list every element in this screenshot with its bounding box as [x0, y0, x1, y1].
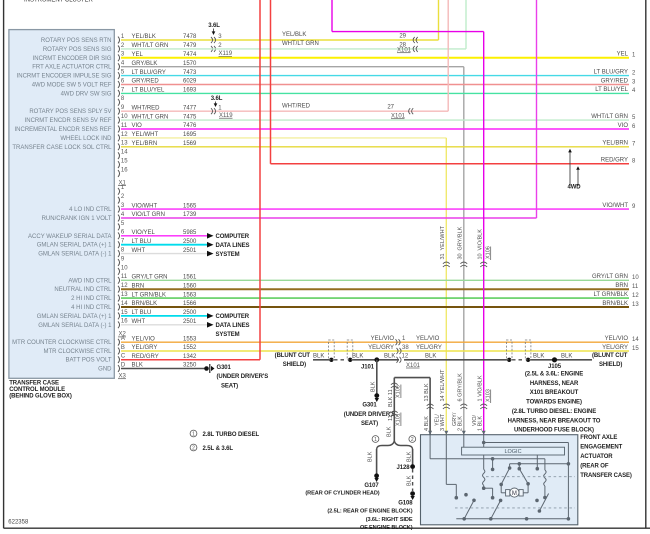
- svg-text:BLK: BLK: [132, 363, 143, 369]
- svg-text:31: 31: [440, 253, 446, 259]
- connector X101 pin 12 on shield row: [384, 353, 421, 368]
- svg-text:X101 BREAKOUT: X101 BREAKOUT: [530, 390, 579, 396]
- svg-text:YEL/GRY: YEL/GRY: [132, 345, 158, 351]
- svg-text:J128: J128: [397, 465, 411, 471]
- svg-text:WHT: WHT: [132, 248, 146, 254]
- wire YEL/BLK 7478 (X1-1 rotary pos sens rtn): [121, 0, 439, 43]
- svg-text:12: 12: [632, 293, 639, 299]
- splice J105: [548, 357, 562, 370]
- svg-text:YEL/VIO: YEL/VIO: [371, 336, 395, 342]
- svg-text:15: 15: [121, 310, 128, 316]
- wire GRY/RED 6029 (X1-6) to right edge pin 3: [121, 78, 636, 85]
- svg-text:14 YEL/WHT: 14 YEL/WHT: [440, 369, 446, 402]
- svg-text:1569: 1569: [183, 141, 197, 147]
- svg-text:14: 14: [121, 150, 128, 156]
- svg-text:VIO/YEL: VIO/YEL: [132, 230, 156, 236]
- connector X101 label (row 9): [391, 114, 406, 120]
- svg-text:BLK: BLK: [371, 381, 377, 392]
- actuator pigtail labels (4 BLK, 3 YEL/WHT, 2 GRY/BLK, 1 VIO/BLK): [424, 412, 484, 431]
- svg-text:15: 15: [632, 346, 639, 352]
- svg-text:4WD MODE SW 5 VOLT REF: 4WD MODE SW 5 VOLT REF: [32, 83, 112, 89]
- svg-text:G301: G301: [217, 365, 232, 371]
- svg-text:YEL: YEL: [132, 52, 144, 58]
- svg-text:LT GRN/BLK: LT GRN/BLK: [132, 292, 166, 298]
- svg-text:1: 1: [374, 437, 377, 443]
- svg-text:LT BLU/YEL: LT BLU/YEL: [595, 87, 628, 93]
- front axle engagement actuator box: [421, 435, 578, 525]
- svg-text:DATA LINES: DATA LINES: [216, 323, 250, 329]
- cropped page title text: [24, 0, 94, 3]
- module: transfer case control module box: [9, 30, 114, 379]
- actuator entry arrows: [428, 431, 486, 435]
- svg-text:YEL/BLK: YEL/BLK: [132, 34, 156, 40]
- svg-text:VIO/LT GRN: VIO/LT GRN: [132, 212, 165, 218]
- blunt cut shield label left: [275, 353, 311, 368]
- svg-text:FRT AXLE ACTUATOR CTRL: FRT AXLE ACTUATOR CTRL: [32, 65, 112, 71]
- svg-text:FRONT AXLE: FRONT AXLE: [580, 435, 617, 441]
- svg-text:M: M: [512, 491, 517, 497]
- svg-text:TOWARDS ENGINE): TOWARDS ENGINE): [526, 400, 582, 406]
- engine harness location note: [508, 372, 601, 434]
- svg-text:LOGIC: LOGIC: [504, 449, 521, 455]
- page border frame left: [3, 0, 5, 528]
- svg-text:MTR CLOCKWISE CTRL: MTR CLOCKWISE CTRL: [43, 349, 112, 355]
- svg-text:INCREMENTAL ENCDR SENS REF: INCREMENTAL ENCDR SENS REF: [14, 127, 111, 133]
- module pin X1-13: [12, 141, 128, 151]
- wire GRY/LT GRN 1561 (X2-11) to right edge pin 10: [121, 274, 639, 281]
- svg-text:(BLUNT CUT: (BLUNT CUT: [592, 353, 628, 359]
- module pin X2-9: [118, 256, 125, 266]
- svg-text:1: 1: [192, 432, 195, 438]
- svg-text:1342: 1342: [183, 354, 197, 360]
- svg-text:YEL/GRY: YEL/GRY: [602, 345, 628, 351]
- svg-text:SHIELD): SHIELD): [283, 362, 306, 368]
- svg-text:J101: J101: [361, 365, 375, 371]
- wire LT BLU 2500 (X2-7 gmlan+): [121, 239, 214, 248]
- svg-text:13 BLK: 13 BLK: [424, 383, 430, 401]
- module pin X1-10: [25, 114, 129, 124]
- diagram number 622358: [8, 520, 29, 526]
- module pin X1-14: [118, 150, 128, 160]
- module pin X1-6: [32, 78, 125, 88]
- svg-text:1553: 1553: [183, 336, 197, 342]
- connector X101 label (rows 1-2): [397, 48, 412, 54]
- svg-text:WHT/RED: WHT/RED: [282, 103, 311, 109]
- svg-text:5985: 5985: [183, 230, 197, 236]
- svg-text:YEL/BRN: YEL/BRN: [132, 141, 158, 147]
- svg-text:GRY/RED: GRY/RED: [601, 78, 629, 84]
- svg-text:4 HI IND CTRL: 4 HI IND CTRL: [71, 305, 112, 311]
- svg-text:ROTARY POS SENS RTN: ROTARY POS SENS RTN: [41, 38, 112, 44]
- svg-text:COMPUTER: COMPUTER: [216, 314, 250, 320]
- svg-text:BLK: BLK: [384, 353, 395, 359]
- wire WHT 2501 (X2-16 gmlan-): [121, 319, 214, 328]
- wire LT BLU/YEL 1693 (X1-7) to right edge pin 4: [121, 87, 636, 94]
- svg-text:VIO/BLK: VIO/BLK: [478, 229, 484, 251]
- svg-text:NEUTRAL IND CTRL: NEUTRAL IND CTRL: [54, 287, 112, 293]
- wire YEL/BRN 1569 (X1-13) to right edge pin 7: [121, 141, 636, 148]
- svg-text:GRY/BLK: GRY/BLK: [132, 61, 158, 67]
- svg-text:12: 12: [121, 132, 128, 138]
- wire BLK shield row right section: [404, 353, 592, 362]
- svg-text:1693: 1693: [183, 88, 197, 94]
- wire VIO/LT GRN 1739 (X2-4 run/crank ign) up at x=536.5: [121, 0, 537, 218]
- svg-text:2500: 2500: [183, 310, 197, 316]
- module pin X2-1: [118, 185, 125, 195]
- svg-text:ENGAGEMENT: ENGAGEMENT: [580, 444, 622, 450]
- svg-text:LT BLU/GRY: LT BLU/GRY: [594, 69, 628, 75]
- svg-text:2500: 2500: [183, 239, 197, 245]
- 4wd reference arrows: [567, 149, 581, 191]
- svg-text:RED/GRY: RED/GRY: [132, 354, 159, 360]
- svg-text:COMPUTER: COMPUTER: [216, 234, 250, 240]
- module pin X2-11: [68, 274, 127, 284]
- module pin X1-5: [17, 70, 125, 80]
- svg-text:RUN/CRANK IGN 1 VOLT: RUN/CRANK IGN 1 VOLT: [42, 216, 112, 222]
- svg-text:(2.5L: REAR OF ENGINE BLOCK): (2.5L: REAR OF ENGINE BLOCK): [327, 509, 412, 515]
- svg-text:(UNDER DRIVER'S: (UNDER DRIVER'S: [217, 374, 269, 380]
- wire YEL/VIO 1553 (X3-A mtr counter clockwise) to right edge pin 14: [121, 336, 639, 345]
- module pin X2-6: [28, 230, 125, 240]
- svg-text:2: 2: [411, 437, 414, 443]
- module connector label X2: [118, 332, 127, 338]
- svg-text:BLK: BLK: [313, 353, 324, 359]
- wire YEL 7474 (X1-3) to right edge pin 1: [121, 52, 636, 59]
- svg-text:WHT/RED: WHT/RED: [132, 105, 161, 111]
- svg-text:LT GRN/BLK: LT GRN/BLK: [594, 292, 628, 298]
- svg-text:GRY/RED: GRY/RED: [132, 79, 160, 85]
- svg-text:VIO: VIO: [132, 123, 143, 129]
- svg-text:1 BLK: 1 BLK: [478, 416, 484, 431]
- wire LT BLU/GRY 7473 (X1-5) to right edge pin 2: [121, 69, 636, 76]
- wire WHT/LT GRN 7479 (X1-2): [121, 0, 466, 52]
- svg-text:27: 27: [387, 105, 394, 111]
- svg-text:GMLAN SERIAL DATA (-) 1: GMLAN SERIAL DATA (-) 1: [38, 323, 112, 329]
- svg-text:D: D: [121, 362, 126, 368]
- svg-text:3 WHT: 3 WHT: [440, 413, 446, 431]
- svg-text:1560: 1560: [183, 283, 197, 289]
- module pin X2-5: [118, 221, 125, 231]
- module pin X2-4: [42, 212, 125, 222]
- svg-text:1570: 1570: [183, 61, 197, 67]
- wire BLK shield row with inline connectors: [313, 353, 399, 362]
- svg-text:YEL/VIO: YEL/VIO: [605, 336, 629, 342]
- ground G107 (rear of cylinder head): [305, 483, 379, 497]
- svg-text:GRY/LT GRN: GRY/LT GRN: [132, 275, 168, 281]
- svg-text:BLK: BLK: [387, 426, 393, 437]
- svg-text:WHT/LT GRN: WHT/LT GRN: [132, 114, 169, 120]
- svg-text:WHT/LT GRN: WHT/LT GRN: [132, 43, 169, 49]
- module pin X3-B: [43, 345, 124, 355]
- svg-text:GND: GND: [98, 367, 112, 373]
- svg-text:YEL/GRY: YEL/GRY: [416, 345, 442, 351]
- svg-text:YEL/GRY: YEL/GRY: [368, 345, 394, 351]
- module pin X1-16: [118, 167, 128, 177]
- wire YEL/WHT 1695 (X1-12 wheel lock ind): [121, 132, 446, 435]
- ground G301 (under driver seat): [344, 402, 396, 427]
- ground wire fork (1)=2.8L diesel (2)=2.5/3.6L: [372, 436, 416, 449]
- module pin X1-9: [29, 105, 125, 115]
- svg-text:YEL/VIO: YEL/VIO: [416, 336, 440, 342]
- svg-text:WHT: WHT: [132, 319, 146, 325]
- svg-text:WHT/LT GRN: WHT/LT GRN: [282, 41, 319, 47]
- wire BLK branch 1 to G107: [368, 449, 380, 482]
- module pin X2-10: [118, 265, 128, 275]
- wire RED/GRY 1342 (X3-C batt pos volt) up at x=260: [121, 0, 260, 360]
- svg-text:ROTARY POS SENS SIG: ROTARY POS SENS SIG: [43, 47, 112, 53]
- module pin X1-11: [14, 123, 127, 133]
- module pin X2-8: [38, 248, 125, 258]
- svg-text:(2.5L & 3.6L: ENGINE: (2.5L & 3.6L: ENGINE: [525, 372, 583, 378]
- svg-text:4 BLK: 4 BLK: [424, 416, 430, 431]
- svg-text:3.6L: 3.6L: [208, 23, 220, 29]
- svg-text:RED/GRY: RED/GRY: [601, 158, 628, 164]
- wire BLK 3250 (X3-D gnd) to G301: [121, 363, 207, 369]
- svg-text:SHIELD): SHIELD): [599, 362, 622, 368]
- module pin X2-7: [37, 239, 125, 249]
- svg-text:(3.6L: RIGHT SIDE: (3.6L: RIGHT SIDE: [366, 517, 413, 523]
- module pin X2-2: [118, 194, 125, 204]
- svg-text:VIO: VIO: [618, 123, 629, 129]
- svg-text:10: 10: [121, 114, 128, 120]
- page border frame right: [645, 0, 647, 528]
- svg-text:YEL/VIO: YEL/VIO: [132, 336, 156, 342]
- splice J101: [361, 357, 379, 370]
- svg-text:16: 16: [121, 319, 128, 325]
- svg-text:BRN: BRN: [132, 283, 145, 289]
- svg-text:2501: 2501: [183, 248, 197, 254]
- svg-text:11: 11: [632, 284, 639, 290]
- svg-text:2: 2: [192, 446, 195, 452]
- svg-text:UNDERHOOD FUSE BLOCK): UNDERHOOD FUSE BLOCK): [514, 428, 594, 434]
- svg-text:4WD DRV SW SIG: 4WD DRV SW SIG: [61, 91, 112, 97]
- svg-text:7476: 7476: [183, 123, 197, 129]
- svg-text:38: 38: [402, 345, 409, 351]
- svg-text:BLK: BLK: [561, 353, 572, 359]
- svg-text:1695: 1695: [183, 132, 197, 138]
- module pin X2-15: [37, 310, 128, 320]
- svg-text:BLK 11: BLK 11: [388, 389, 394, 407]
- svg-text:SYSTEM: SYSTEM: [216, 332, 240, 338]
- svg-text:HARNESS, NEAR BREAKOUT TO: HARNESS, NEAR BREAKOUT TO: [508, 418, 601, 424]
- module name label: [9, 381, 72, 400]
- module pin X2-12: [54, 283, 128, 293]
- wire VIO/WHT 1565 (X2-3 4 lo ind ctrl) to right edge pin 9: [121, 203, 636, 210]
- wire LT BLU 2500 (X2-15 gmlan+): [121, 310, 214, 319]
- wire BRN/BLK 1566 (X2-14) to right edge pin 13: [121, 301, 639, 308]
- svg-text:10: 10: [478, 253, 484, 259]
- actuator internal wiring: [430, 435, 570, 520]
- svg-text:G108: G108: [398, 500, 413, 506]
- svg-text:BATT POS VOLT: BATT POS VOLT: [65, 358, 111, 364]
- module pin X2-14: [71, 301, 128, 311]
- connector X103 (13 BLK, 14 YEL/WHT, 6 GRY/BLK, 1 VIO/BLK): [424, 369, 492, 409]
- svg-text:BLK: BLK: [352, 353, 363, 359]
- svg-text:622358: 622358: [8, 520, 29, 526]
- svg-text:10: 10: [632, 275, 639, 281]
- svg-text:VIO/WHT: VIO/WHT: [132, 203, 158, 209]
- connector X119 (3.6L) rows 1-2: [208, 23, 233, 57]
- svg-text:13: 13: [632, 302, 639, 308]
- svg-text:(2.8L TURBO DIESEL: ENGINE: (2.8L TURBO DIESEL: ENGINE: [512, 409, 596, 415]
- svg-text:GRY/BLK: GRY/BLK: [458, 226, 464, 250]
- wire BLK branch 2 via J128 to G108: [397, 449, 415, 500]
- module pin X2-3: [69, 203, 125, 213]
- svg-text:BRN/BLK: BRN/BLK: [602, 301, 628, 307]
- svg-text:HARNESS, NEAR: HARNESS, NEAR: [530, 381, 579, 387]
- svg-text:LT BLU: LT BLU: [132, 239, 152, 245]
- svg-text:7479: 7479: [183, 43, 197, 49]
- wire BLK actuator ground harness: [394, 378, 430, 441]
- svg-text:(REAR OF: (REAR OF: [580, 463, 609, 469]
- svg-text:(REAR OF CYLINDER HEAD): (REAR OF CYLINDER HEAD): [305, 490, 379, 496]
- svg-text:TRANSFER CASE LOCK SOL CTRL: TRANSFER CASE LOCK SOL CTRL: [12, 145, 112, 151]
- svg-text:ACTUATOR: ACTUATOR: [580, 454, 613, 460]
- svg-text:4WD: 4WD: [567, 184, 581, 190]
- actuator switch contacts and arms: [456, 493, 570, 521]
- motor M: [506, 488, 524, 497]
- blunt cut shield label right: [592, 353, 628, 368]
- connector X106 on ground wire (pin 11): [388, 383, 402, 407]
- svg-text:14: 14: [632, 337, 639, 343]
- svg-text:3.6L: 3.6L: [211, 96, 223, 102]
- svg-text:1552: 1552: [183, 345, 197, 351]
- svg-text:1566: 1566: [183, 301, 197, 307]
- svg-text:1 VIO/BLK: 1 VIO/BLK: [478, 375, 484, 401]
- svg-text:OF ENGINE BLOCK): OF ENGINE BLOCK): [360, 525, 413, 531]
- ground G301 (module): [204, 364, 268, 389]
- wire VIO/YEL 5985 (X2-6 accy wakeup serial data): [121, 230, 214, 239]
- module pin X1-8: [118, 96, 125, 106]
- svg-text:2.5L & 3.6L: 2.5L & 3.6L: [203, 446, 234, 452]
- svg-text:MTR COUNTER CLOCKWISE CTRL: MTR COUNTER CLOCKWISE CTRL: [12, 340, 112, 346]
- svg-text:AWD IND CTRL: AWD IND CTRL: [68, 278, 112, 284]
- connector X119 (3.6L) row 9: [211, 96, 234, 119]
- svg-text:ROTARY POS SENS SPLY 5V: ROTARY POS SENS SPLY 5V: [29, 109, 111, 115]
- svg-text:YEL/WHT: YEL/WHT: [132, 132, 159, 138]
- wire GRY/BLK 1570 (X1-4 frt axle actuator ctrl): [121, 61, 464, 435]
- svg-text:ACCY WAKEUP SERIAL DATA: ACCY WAKEUP SERIAL DATA: [28, 234, 111, 240]
- svg-text:2.8L TURBO DIESEL: 2.8L TURBO DIESEL: [203, 432, 260, 438]
- wire BRN 1560 (X2-12) to right edge pin 11: [121, 283, 639, 290]
- module pin X3-C: [65, 354, 125, 364]
- module pin X1-15: [118, 159, 128, 169]
- svg-text:7477: 7477: [183, 105, 197, 111]
- svg-text:BRN: BRN: [615, 283, 628, 289]
- svg-text:CONTROL MODULE: CONTROL MODULE: [9, 387, 65, 393]
- svg-text:6029: 6029: [183, 79, 197, 85]
- wire WHT/RED 7477 (X1-9 rotary pos sens sply 5v): [121, 0, 448, 114]
- module pin X3-D: [98, 362, 126, 372]
- module pin X2-13: [71, 292, 128, 302]
- module pin X2-16: [38, 319, 128, 329]
- page border frame bottom: [4, 527, 650, 529]
- svg-text:LT BLU: LT BLU: [132, 310, 152, 316]
- wire WHT 2501 (X2-8 gmlan-): [121, 248, 214, 257]
- svg-text:GMLAN SERIAL DATA (+) 1: GMLAN SERIAL DATA (+) 1: [37, 243, 112, 249]
- module pin X1-12: [60, 132, 128, 142]
- svg-text:2 HI IND CTRL: 2 HI IND CTRL: [71, 296, 112, 302]
- svg-text:12: 12: [402, 354, 409, 360]
- svg-text:G107: G107: [364, 483, 379, 489]
- wire VIO 7476 (X1-11) to right edge pin 6: [121, 123, 636, 130]
- inline connector dashed boxes (left pair): [329, 340, 353, 360]
- svg-text:GMLAN SERIAL DATA (+) 1: GMLAN SERIAL DATA (+) 1: [37, 314, 112, 320]
- svg-text:BLK: BLK: [406, 451, 412, 462]
- svg-text:2 BLK: 2 BLK: [458, 416, 464, 431]
- svg-text:3250: 3250: [183, 363, 197, 369]
- svg-text:11: 11: [388, 415, 394, 421]
- module pin X3-A: [12, 336, 125, 346]
- svg-text:4 LO IND CTRL: 4 LO IND CTRL: [69, 207, 112, 213]
- svg-text:13: 13: [121, 141, 128, 147]
- svg-text:WHT/LT GRN: WHT/LT GRN: [591, 114, 628, 120]
- svg-text:YEL/WHT: YEL/WHT: [440, 225, 446, 250]
- svg-text:GRY/LT GRN: GRY/LT GRN: [592, 274, 628, 280]
- svg-text:13: 13: [121, 292, 128, 298]
- svg-text:16: 16: [121, 167, 128, 173]
- svg-text:LT BLU/GRY: LT BLU/GRY: [132, 70, 166, 76]
- svg-text:7474: 7474: [183, 52, 197, 58]
- svg-text:30: 30: [458, 253, 464, 259]
- svg-text:LT BLU/YEL: LT BLU/YEL: [132, 88, 165, 94]
- svg-text:(BEHIND GLOVE BOX): (BEHIND GLOVE BOX): [9, 394, 72, 400]
- svg-text:6 GRY/BLK: 6 GRY/BLK: [458, 373, 464, 402]
- svg-text:SEAT): SEAT): [361, 421, 378, 427]
- svg-text:GMLAN SERIAL DATA (-) 1: GMLAN SERIAL DATA (-) 1: [38, 252, 112, 258]
- wire RED/GRY vertical feed to right edge pin 8: [271, 0, 637, 165]
- wire YEL/GRY 1552 (X3-B mtr clockwise) to right edge pin 15: [121, 345, 639, 354]
- actuator dashed linkage lines: [455, 477, 575, 508]
- svg-text:BLK: BLK: [406, 475, 412, 486]
- svg-text:B: B: [121, 345, 125, 351]
- svg-text:29: 29: [399, 33, 406, 39]
- module connector label X1: [118, 180, 127, 186]
- svg-text:C: C: [121, 354, 126, 360]
- svg-text:INCRMT ENCODER IMPULSE SIG: INCRMT ENCODER IMPULSE SIG: [17, 74, 112, 80]
- svg-text:7475: 7475: [183, 114, 197, 120]
- svg-text:YEL/BLK: YEL/BLK: [282, 32, 306, 38]
- module pin X1-2: [43, 43, 125, 53]
- computer data lines system label 1: [216, 234, 250, 258]
- ground G108 (engine block): [327, 500, 413, 531]
- svg-text:J105: J105: [548, 364, 562, 370]
- connector X101 on ground wire (pin 11): [387, 411, 402, 437]
- svg-text:INSTRUMENT CLUSTER: INSTRUMENT CLUSTER: [24, 0, 94, 3]
- computer data lines system label 2: [216, 314, 250, 338]
- module pin X1-4: [32, 61, 125, 71]
- module pin X1-7: [61, 87, 125, 97]
- logic box: [462, 447, 565, 455]
- inline connector dashed boxes (right pair): [506, 340, 530, 360]
- svg-text:1739: 1739: [183, 212, 197, 218]
- svg-text:10: 10: [121, 265, 128, 271]
- svg-text:TRANSFER CASE): TRANSFER CASE): [580, 473, 632, 479]
- svg-text:7478: 7478: [183, 34, 197, 40]
- module connector label X3: [118, 374, 127, 380]
- svg-text:1561: 1561: [183, 275, 197, 281]
- svg-text:11: 11: [121, 274, 128, 280]
- module pin X1-1: [41, 34, 125, 44]
- svg-text:BLK: BLK: [425, 353, 436, 359]
- engine legend: [190, 430, 259, 452]
- wire BLK J101 to G301: [371, 360, 380, 402]
- wire WHT/LT GRN 7475 (X1-10) to right edge pin 5: [121, 114, 636, 121]
- svg-text:YEL: YEL: [617, 52, 629, 58]
- svg-text:VIO/WHT: VIO/WHT: [602, 203, 628, 209]
- connector X106 (31 YEL/WHT, 30 GRY/BLK, 10 VIO/BLK): [440, 225, 491, 266]
- svg-text:(BLUNT CUT: (BLUNT CUT: [275, 353, 311, 359]
